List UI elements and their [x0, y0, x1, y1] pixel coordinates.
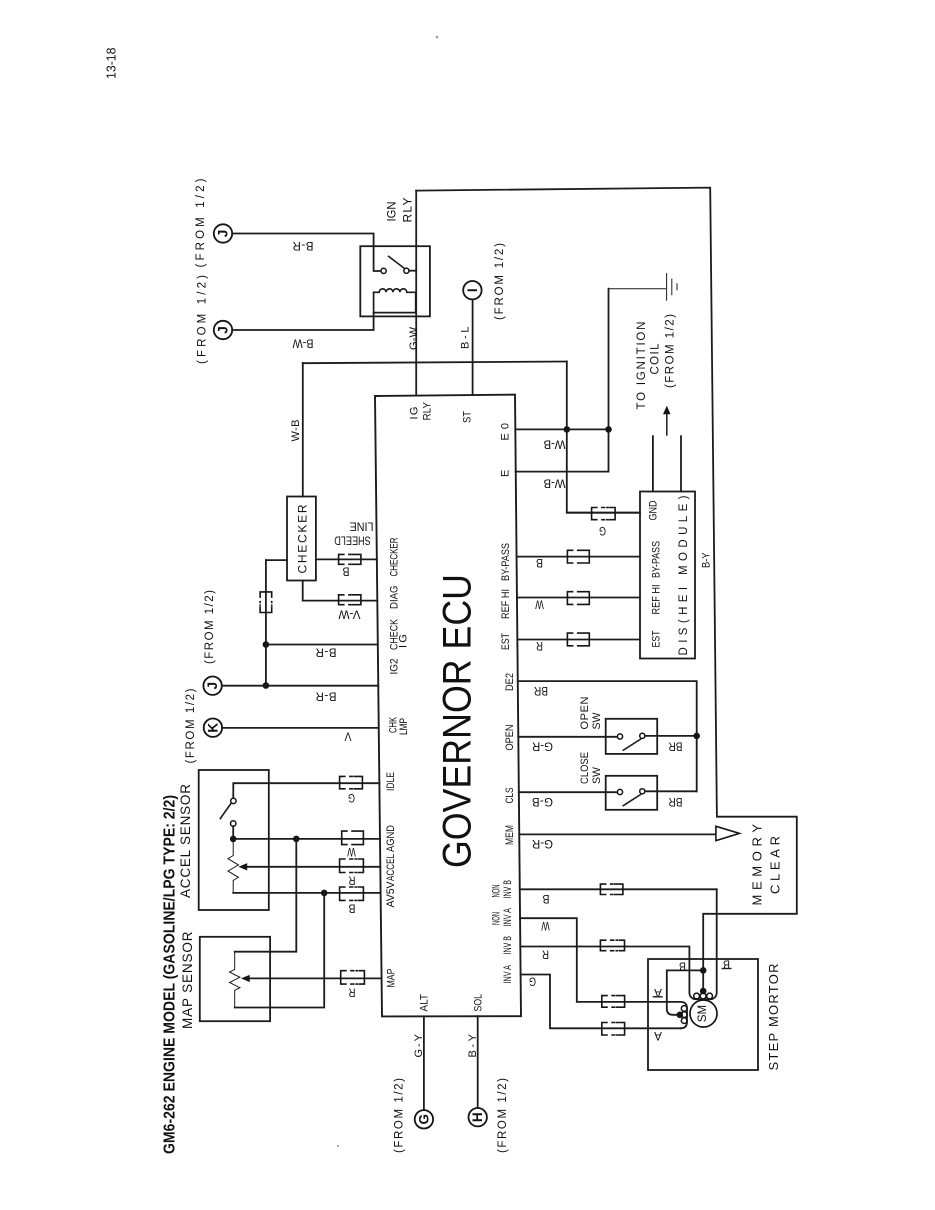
wire B-R to ECU CHECK IG pin [266, 644, 378, 646]
svg-text:H: H [470, 1112, 485, 1122]
connector (G gnd wire) [592, 508, 616, 520]
connector (B bypass wire) [567, 550, 589, 563]
accel wiper arrow head [239, 863, 248, 870]
connector K (from 1/2) [204, 719, 222, 737]
junction dot BR bus [693, 733, 700, 740]
wire DIS lead up-right [680, 436, 682, 491]
wire AV5V to ECU [233, 892, 380, 894]
wire E from ECU [516, 471, 609, 473]
svg-text:GOVERNOR ECU: GOVERNOR ECU [436, 574, 480, 868]
svg-text:B: B [536, 556, 543, 568]
svg-text:13-18: 13-18 [105, 47, 119, 79]
svg-text:GND: GND [648, 500, 660, 520]
wire AV5V riser to map bottom [235, 893, 325, 1008]
wire DIS lead up-left [652, 436, 654, 491]
svg-text:A: A [654, 1029, 662, 1041]
svg-text:G: G [599, 524, 606, 536]
memory clear arrow head [716, 826, 740, 840]
svg-text:BR: BR [669, 739, 683, 751]
svg-text:NON: NON [491, 912, 503, 925]
svg-text:V-W: V-W [338, 608, 360, 620]
svg-text:CHECKER: CHECKER [389, 537, 401, 576]
svg-text:B: B [348, 902, 355, 914]
svg-text:G-W: G-W [408, 326, 420, 350]
junction dot E0/left riser [564, 426, 571, 433]
svg-text:W-B: W-B [543, 477, 565, 489]
wire W-B vertical at checker [302, 363, 304, 497]
relay switch right lead [409, 270, 416, 272]
connector (checker branch, vertical) [260, 592, 272, 613]
relay coil body [374, 292, 416, 312]
junction dot IG2 branch [263, 682, 270, 689]
arrow head to ignition coil [663, 406, 671, 414]
junction dot accel AGND [230, 836, 237, 843]
svg-text:(FROM 1/2): (FROM 1/2) [497, 1078, 509, 1153]
svg-text:W: W [541, 919, 550, 931]
svg-text:CLOSE: CLOSE [579, 752, 591, 784]
svg-text:AV5V: AV5V [385, 881, 397, 908]
svg-text:B: B [723, 958, 730, 970]
svg-text:INV B: INV B [502, 936, 514, 955]
step motor SM circle [690, 1000, 717, 1027]
relay coil loops [374, 289, 416, 292]
connector (W ref hi wire) [567, 592, 589, 605]
svg-text:NON: NON [491, 884, 503, 897]
svg-text:BR: BR [534, 684, 548, 696]
svg-text:(FROM 1/2): (FROM 1/2) [204, 590, 216, 664]
accel potentiometer resistor [228, 839, 238, 893]
connector (W a-bar wire) [602, 996, 625, 1008]
connector (R est wire) [567, 633, 589, 646]
wire BR open switch to bus [645, 735, 697, 737]
overbar of A-bar [654, 996, 663, 998]
svg-text:G-Y: G-Y [413, 1033, 425, 1057]
wire R inv-b from ECU to B terminal [520, 889, 716, 999]
svg-text:ST: ST [462, 411, 474, 423]
svg-text:MAP SENSOR: MAP SENSOR [180, 931, 195, 1029]
wire ground riser (right) [608, 289, 610, 472]
svg-text:G: G [529, 975, 536, 987]
svg-text:R: R [349, 986, 356, 998]
svg-text:B-R: B-R [316, 646, 337, 658]
svg-text:E: E [500, 470, 512, 477]
svg-text:SW: SW [591, 712, 603, 730]
wire B-R from J to ECU IG2 pin [222, 685, 378, 687]
DIS HEI module box [640, 492, 695, 659]
connector I (from 1/2) [463, 281, 481, 299]
wire B-Y branch to left coil tap [667, 970, 703, 1014]
svg-text:(FROM 1/2): (FROM 1/2) [494, 243, 506, 320]
governor ECU box [375, 395, 521, 1017]
svg-text:G-B: G-B [532, 795, 553, 807]
wire R est ECU to DIS [517, 639, 640, 641]
svg-text:SM: SM [697, 1005, 709, 1022]
step motor box [648, 959, 758, 1070]
svg-text:BY-PASS: BY-PASS [651, 541, 663, 578]
wire G gnd from riser to DIS GND [567, 512, 640, 514]
connector G (from 1/2) [415, 1110, 433, 1128]
map potentiometer resistor [230, 952, 240, 1008]
svg-text:SW: SW [591, 766, 603, 784]
svg-text:COIL: COIL [650, 343, 662, 375]
step motor left winding loops [681, 1006, 687, 1012]
wire B-Y top rail and right side run [416, 188, 797, 992]
svg-text:R: R [536, 639, 543, 651]
open switch contacts [617, 734, 622, 739]
svg-text:DIS(HEI MODULE): DIS(HEI MODULE) [678, 495, 690, 655]
svg-text:IG: IG [409, 407, 421, 420]
svg-text:J: J [216, 326, 231, 334]
wire vertical junction riser (left) [567, 362, 640, 513]
svg-text:DE2: DE2 [504, 673, 516, 691]
idle switch blade [220, 803, 231, 818]
svg-text:G-R: G-R [532, 837, 553, 849]
junction dot top coil tap [700, 988, 707, 995]
open switch box [606, 719, 658, 754]
overbar of B-bar [722, 968, 731, 970]
wire V from K to ECU CHK LMP pin [222, 727, 379, 729]
relay switch blade [389, 256, 405, 268]
svg-text:K: K [205, 723, 220, 733]
svg-text:IG: IG [398, 634, 410, 648]
connector (G idle wire) [340, 776, 363, 788]
wire G-Y from ECU ALT to G [423, 1016, 425, 1110]
svg-text:(FROM 1/2): (FROM 1/2) [197, 275, 209, 364]
svg-text:W-B: W-B [290, 420, 302, 442]
wire E0 from ECU [515, 428, 608, 430]
svg-text:GM6-262 ENGINE MODEL (GASOLINE: GM6-262 ENGINE MODEL (GASOLINE/LPG TYPE:… [162, 795, 179, 1154]
accel sensor box [199, 770, 269, 910]
svg-text:(FROM 1/2): (FROM 1/2) [195, 178, 207, 267]
svg-text:EST: EST [500, 633, 512, 650]
wire B-R from J to relay switch [232, 234, 381, 272]
svg-text:SHEELD: SHEELD [334, 534, 371, 546]
svg-text:IGN: IGN [385, 202, 399, 222]
connector J (IG2, from 1/2) [203, 677, 221, 695]
ignition relay box [360, 246, 430, 316]
svg-text:OPEN: OPEN [504, 724, 516, 750]
svg-text:REF HI: REF HI [500, 589, 512, 619]
connector (B checker wire) [339, 554, 361, 564]
svg-text:G: G [348, 791, 355, 803]
svg-text:B-R: B-R [316, 690, 337, 702]
svg-text:R: R [349, 874, 356, 886]
relay switch contacts [381, 268, 386, 273]
svg-text:(FROM 1/2): (FROM 1/2) [665, 314, 677, 388]
svg-text:B-R: B-R [293, 239, 314, 251]
svg-text:LINE: LINE [349, 520, 373, 532]
svg-text:RLY: RLY [422, 401, 434, 420]
wire BR close switch to bus [645, 790, 697, 792]
scan speck [436, 36, 439, 39]
wire W ref hi ECU to DIS [517, 597, 640, 599]
svg-text:BR: BR [669, 795, 683, 807]
junction dot AV5V/MAP riser [321, 890, 328, 897]
close switch box [606, 776, 658, 810]
svg-text:IDLE: IDLE [385, 772, 397, 791]
connector (B non inv b) [600, 884, 623, 894]
svg-text:A: A [654, 986, 662, 998]
junction dot AGND/MAP riser [293, 836, 300, 843]
svg-text:SOL: SOL [473, 994, 485, 1012]
wire AGND to ECU [233, 838, 380, 840]
svg-text:TO IGNITION: TO IGNITION [636, 322, 648, 410]
wire W-B rail to checker [303, 362, 567, 364]
svg-text:J: J [205, 682, 220, 690]
connector (R map wire) [341, 971, 365, 984]
wire idle switch to ECU IDLE pin [233, 783, 379, 798]
map wiper arrow head [241, 975, 250, 982]
wire G-R ECU OPEN to switch [518, 736, 617, 738]
svg-text:MEM: MEM [504, 825, 516, 845]
wire checker left stub [266, 559, 287, 561]
wire W non-inv-a from ECU to A-bar [520, 918, 687, 1028]
svg-text:W: W [347, 845, 356, 857]
connector (W agnd wire) [342, 831, 364, 845]
connector (R accel wire) [340, 859, 364, 873]
svg-text:IG2: IG2 [389, 659, 401, 675]
svg-text:(FROM 1/2): (FROM 1/2) [394, 1078, 406, 1153]
svg-text:DIAG: DIAG [389, 586, 401, 610]
svg-text:B-W: B-W [292, 337, 313, 349]
junction dot E0/ground riser [605, 426, 612, 433]
arrow line to ignition coil [666, 414, 668, 436]
svg-text:REF HI: REF HI [651, 585, 663, 615]
connector (V-W diag wire) [339, 595, 361, 605]
wire G-R MEM from ECU [519, 833, 716, 835]
svg-text:B-Y: B-Y [701, 552, 713, 568]
connector J (upper, from 1/2) [214, 224, 232, 242]
svg-text:B: B [542, 892, 549, 904]
wire IGN RLY vertical (relay to ECU IG RLY pin) [415, 191, 417, 396]
svg-text:OPEN: OPEN [579, 696, 591, 729]
svg-text:W: W [535, 598, 544, 610]
wire ACCEL wiper from ECU [247, 866, 380, 868]
connector H (from 1/2) [469, 1108, 487, 1126]
connector (B av5v wire) [340, 887, 364, 900]
svg-text:AGND: AGND [385, 825, 397, 852]
checker box [287, 497, 316, 581]
wire B-L from I to ECU ST pin [472, 300, 474, 395]
step motor top winding loops [694, 993, 700, 999]
svg-text:B: B [679, 960, 686, 972]
wire BR DE2 to switch bus [518, 681, 697, 791]
ground symbol [609, 274, 678, 301]
svg-text:CLS: CLS [504, 788, 516, 804]
svg-text:G-R: G-R [532, 739, 553, 751]
wire B bypass ECU to DIS [517, 556, 640, 558]
svg-text:MAP: MAP [386, 969, 398, 988]
wire idle lower contact to AGND [232, 826, 234, 839]
wire G inv-a from ECU to A terminal [521, 975, 681, 1029]
svg-text:ACCEL: ACCEL [385, 854, 397, 881]
junction dot check-ig branch [263, 641, 270, 648]
svg-text:V: V [344, 730, 351, 742]
svg-text:G: G [416, 1114, 431, 1125]
open switch blade [623, 739, 640, 750]
svg-text:INV A: INV A [502, 965, 514, 984]
connector J (lower, from 1/2) [214, 321, 232, 339]
svg-text:BY-PASS: BY-PASS [500, 543, 512, 581]
close switch contacts [617, 789, 622, 794]
idle switch contacts [231, 798, 236, 803]
junction dot B-Y branch [700, 967, 707, 974]
svg-text:ACCEL SENSOR: ACCEL SENSOR [178, 784, 193, 898]
wire checker branch vertical to IG2 net [265, 560, 267, 685]
svg-text:W-B: W-B [543, 438, 565, 450]
wire AGND riser to map top [235, 839, 297, 952]
svg-text:RLY: RLY [401, 198, 415, 223]
wire B-W from J to relay coil [232, 313, 373, 330]
svg-text:R: R [542, 948, 549, 960]
close switch blade [623, 795, 640, 806]
svg-text:I: I [465, 288, 480, 292]
svg-text:J: J [216, 230, 231, 238]
svg-text:STEP MORTOR: STEP MORTOR [766, 964, 781, 1071]
svg-text:EST: EST [651, 630, 663, 647]
svg-text:INV B: INV B [502, 880, 514, 899]
wire V-W checker to ECU DIAG pin [303, 581, 378, 601]
svg-text:LMP: LMP [398, 718, 410, 735]
wire checker B to ECU CHECKER pin [316, 558, 377, 560]
wire MAP wiper from ECU [250, 977, 381, 979]
svg-text:ALT: ALT [419, 994, 431, 1012]
scan speck 2 [337, 1145, 339, 1147]
wire B non-inv-b from ECU [520, 888, 717, 890]
svg-text:B: B [342, 565, 349, 577]
wire G-B ECU CLS to switch [519, 791, 618, 793]
svg-text:B-Y: B-Y [467, 1033, 479, 1057]
svg-text:CLEAR: CLEAR [768, 836, 783, 894]
svg-text:INV A: INV A [502, 908, 514, 927]
svg-text:B-L: B-L [460, 327, 472, 350]
map sensor box [200, 937, 270, 1021]
connector (G a wire) [602, 1023, 625, 1036]
svg-text:(FROM 1/2): (FROM 1/2) [185, 688, 197, 763]
wire B-Y from ECU SOL to H [477, 1016, 479, 1108]
junction dot left coil tap [677, 1012, 684, 1019]
connector (R inv b) [600, 940, 624, 951]
